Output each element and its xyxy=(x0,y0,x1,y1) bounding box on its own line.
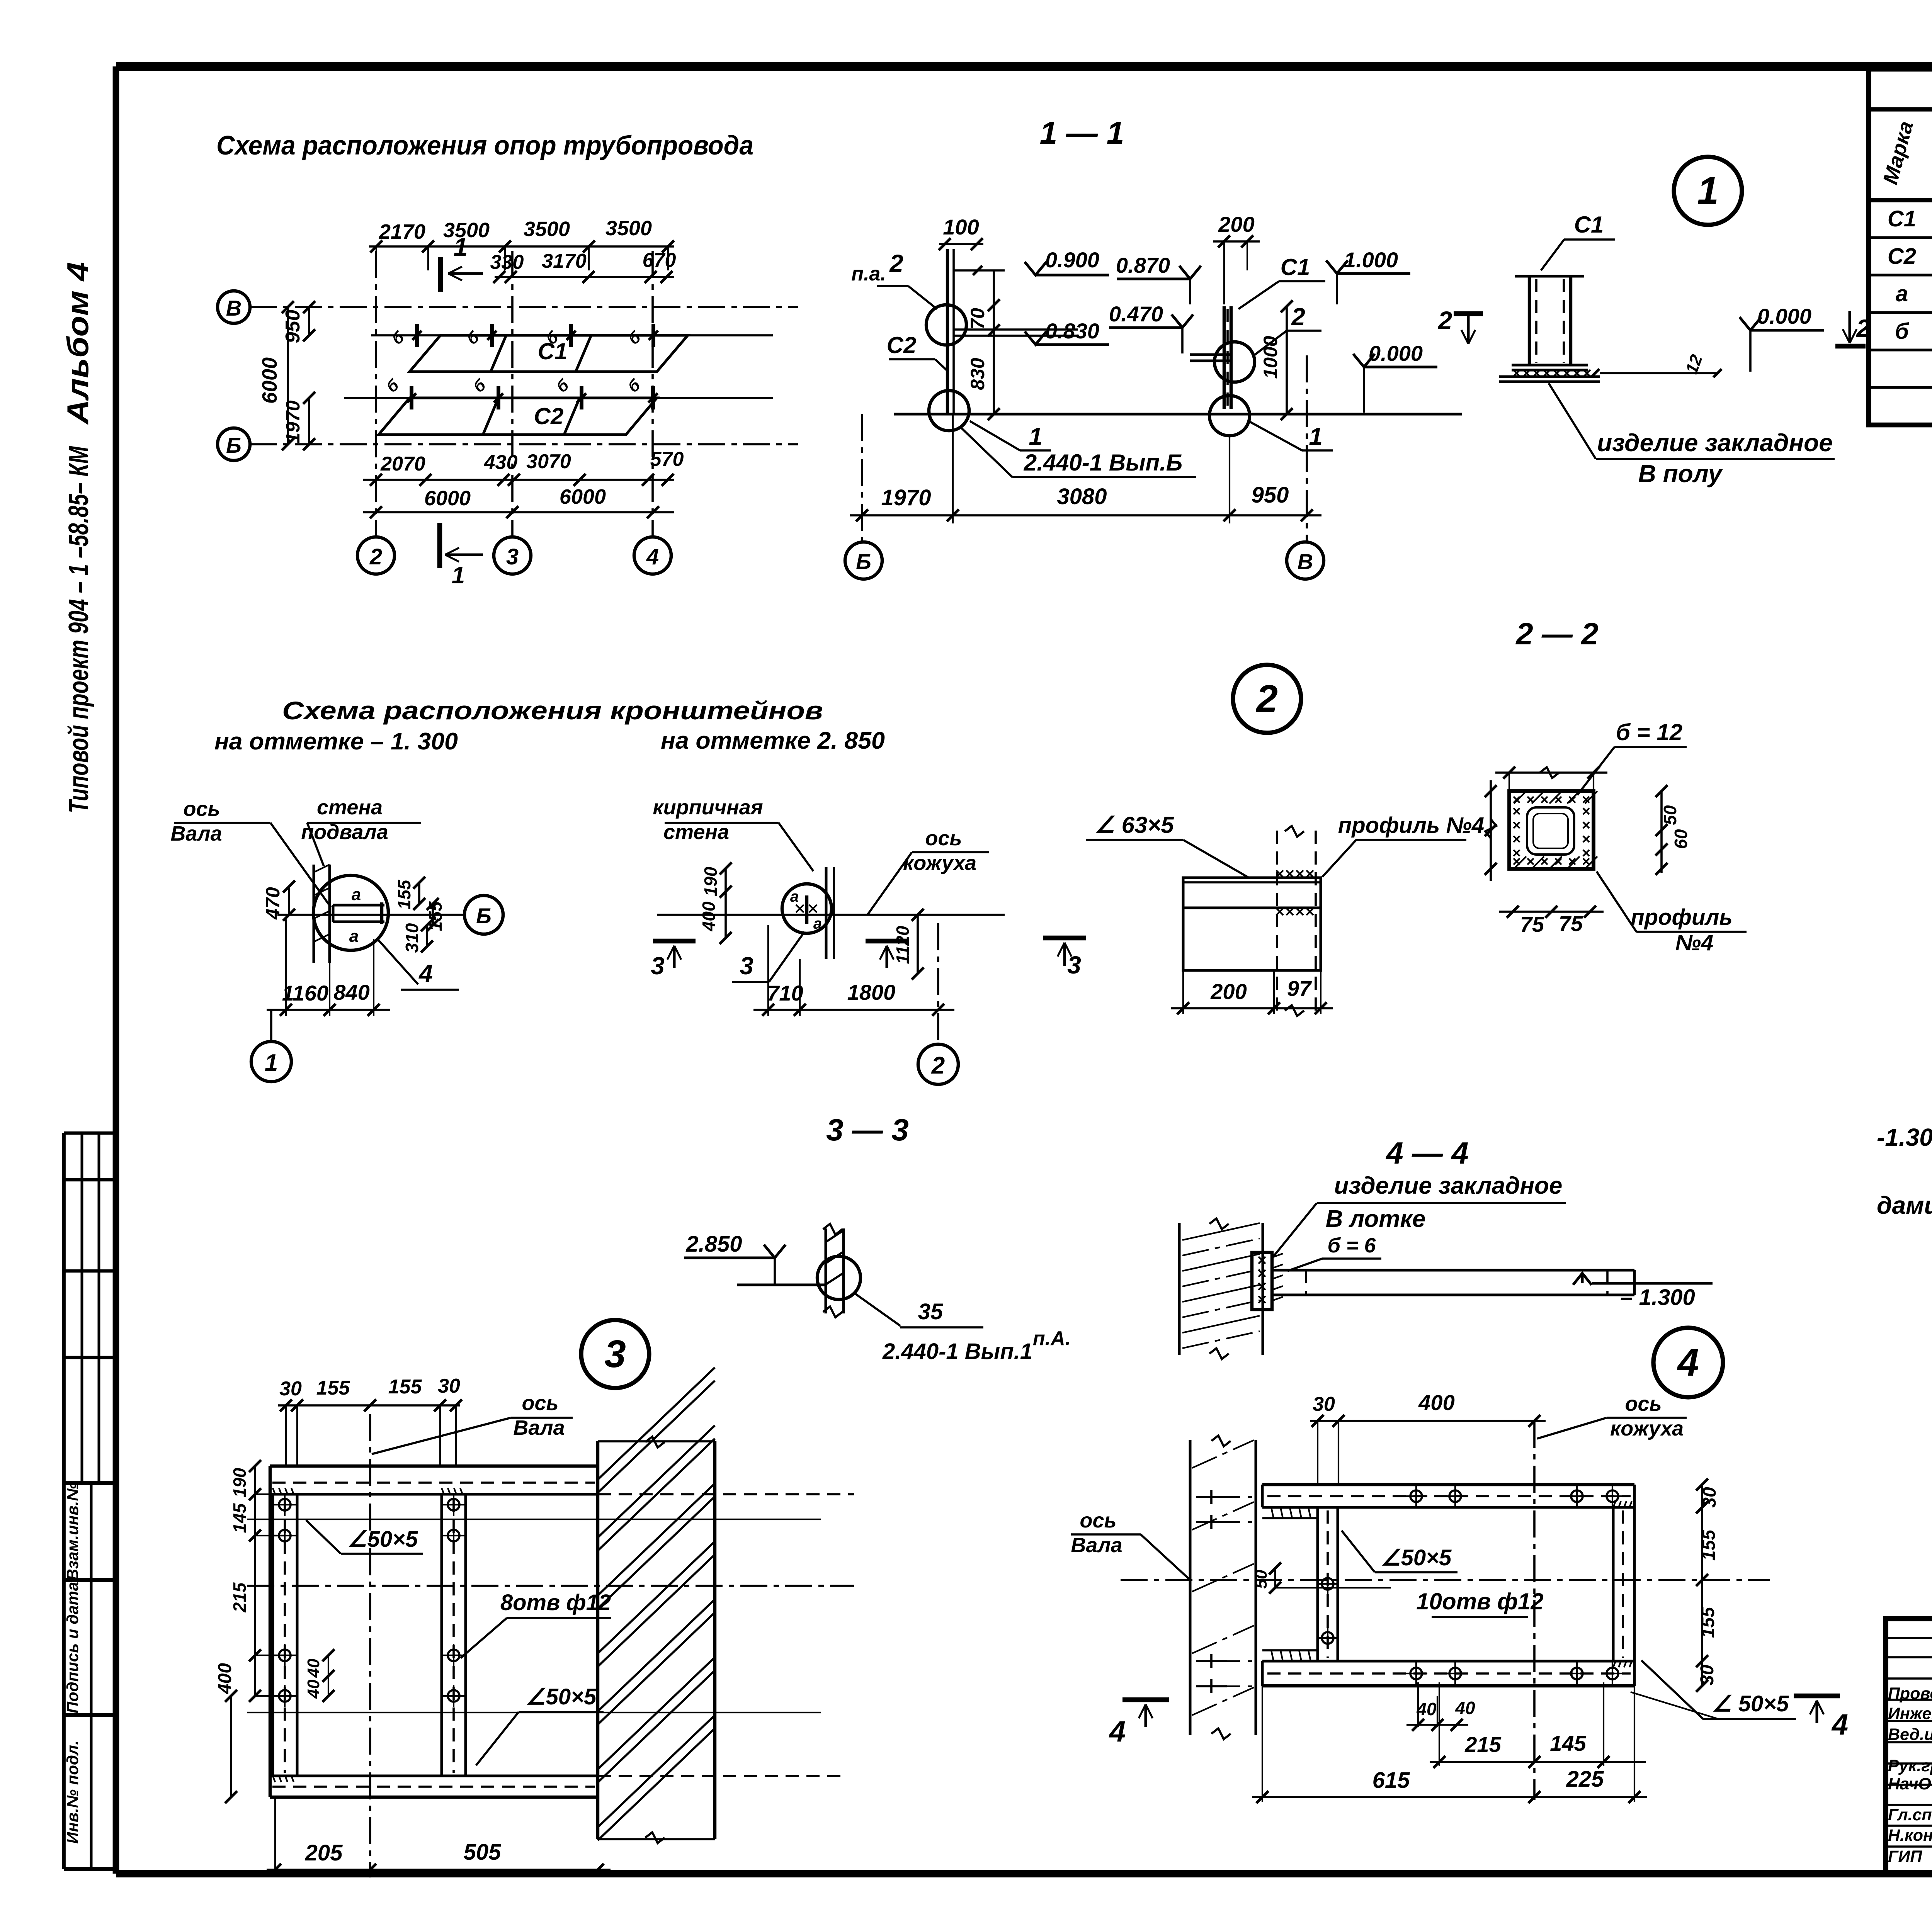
svg-text:1: 1 xyxy=(265,1050,278,1076)
svg-text:40: 40 xyxy=(304,1679,323,1699)
svg-text:30: 30 xyxy=(1697,1665,1718,1685)
svg-text:30: 30 xyxy=(279,1378,302,1400)
svg-text:35: 35 xyxy=(918,1299,943,1324)
svg-text:75: 75 xyxy=(1559,911,1583,936)
svg-text:Вала: Вала xyxy=(170,822,222,845)
svg-text:50: 50 xyxy=(1252,1570,1270,1589)
svg-text:40: 40 xyxy=(1455,1698,1475,1718)
svg-text:2 — 2: 2 — 2 xyxy=(1515,617,1598,651)
svg-text:8отв ф12: 8отв ф12 xyxy=(500,1590,611,1615)
svg-text:∠ 63×5: ∠ 63×5 xyxy=(1094,812,1174,838)
svg-text:75: 75 xyxy=(1520,912,1544,936)
svg-text:ГИП: ГИП xyxy=(1888,1847,1922,1866)
svg-text:470: 470 xyxy=(262,887,284,920)
svg-text:п.а.: п.а. xyxy=(851,263,886,285)
svg-text:1: 1 xyxy=(1309,423,1323,450)
svg-text:3: 3 xyxy=(740,952,753,980)
svg-text:3: 3 xyxy=(506,544,519,569)
svg-text:Гл.спец.т.о: Гл.спец.т.о xyxy=(1888,1806,1932,1824)
svg-text:1800: 1800 xyxy=(847,980,896,1004)
svg-text:0.900: 0.900 xyxy=(1045,248,1099,272)
svg-text:кожуха: кожуха xyxy=(1610,1417,1684,1440)
svg-text:200: 200 xyxy=(1218,212,1254,236)
svg-text:30: 30 xyxy=(438,1375,460,1397)
svg-text:0.000: 0.000 xyxy=(1757,304,1811,328)
svg-text:670: 670 xyxy=(643,249,676,272)
svg-text:В полу: В полу xyxy=(1638,460,1723,488)
svg-text:97: 97 xyxy=(1287,976,1312,1001)
svg-text:кирпичная: кирпичная xyxy=(653,796,763,819)
svg-text:950: 950 xyxy=(1252,482,1289,508)
svg-text:2: 2 xyxy=(369,544,382,569)
svg-text:б = 12: б = 12 xyxy=(1616,719,1682,745)
svg-text:В: В xyxy=(226,296,241,320)
svg-text:1: 1 xyxy=(1029,423,1043,450)
svg-text:2: 2 xyxy=(931,1052,945,1079)
svg-text:215: 215 xyxy=(230,1582,250,1612)
svg-text:30: 30 xyxy=(1313,1393,1335,1415)
svg-text:155: 155 xyxy=(388,1376,422,1398)
svg-text:Проверил: Проверил xyxy=(1888,1684,1932,1703)
svg-text:4: 4 xyxy=(1109,1715,1126,1748)
svg-text:190: 190 xyxy=(230,1468,250,1497)
svg-text:60: 60 xyxy=(1671,829,1691,849)
svg-text:стена: стена xyxy=(663,821,729,844)
svg-text:– 1.300: – 1.300 xyxy=(1620,1285,1695,1310)
svg-text:155: 155 xyxy=(394,879,414,909)
svg-text:ось: ось xyxy=(925,827,962,850)
svg-text:40: 40 xyxy=(304,1658,323,1678)
svg-text:215: 215 xyxy=(1464,1732,1501,1757)
svg-text:615: 615 xyxy=(1372,1768,1410,1793)
svg-text:3500: 3500 xyxy=(605,217,652,240)
svg-text:Вала: Вала xyxy=(1071,1534,1122,1557)
svg-text:а: а xyxy=(813,915,822,932)
svg-text:30: 30 xyxy=(1699,1487,1720,1508)
svg-text:505: 505 xyxy=(464,1840,502,1865)
svg-text:Б: Б xyxy=(226,433,241,457)
svg-text:б: б xyxy=(1895,319,1910,344)
svg-text:400: 400 xyxy=(699,901,719,931)
svg-text:190: 190 xyxy=(701,866,721,896)
svg-text:3: 3 xyxy=(651,952,665,980)
svg-text:4: 4 xyxy=(1831,1708,1848,1741)
svg-text:3070: 3070 xyxy=(526,450,571,473)
svg-text:профиль №4: профиль №4 xyxy=(1338,813,1484,838)
svg-text:6000: 6000 xyxy=(560,485,606,508)
svg-text:профиль: профиль xyxy=(1631,905,1733,930)
svg-text:Н.контр.: Н.контр. xyxy=(1888,1826,1932,1845)
svg-text:1970: 1970 xyxy=(282,400,304,443)
svg-text:С2: С2 xyxy=(887,332,917,358)
svg-text:Инв.№ подл.: Инв.№ подл. xyxy=(63,1740,82,1843)
svg-text:950: 950 xyxy=(282,310,304,343)
svg-text:1 — 1: 1 — 1 xyxy=(1040,116,1124,151)
svg-text:∠50×5: ∠50×5 xyxy=(1381,1545,1452,1570)
svg-text:на отметке – 1. 300: на отметке – 1. 300 xyxy=(214,728,458,755)
svg-text:С1: С1 xyxy=(1281,254,1310,280)
svg-text:№4: №4 xyxy=(1675,930,1714,955)
svg-text:0.830: 0.830 xyxy=(1045,319,1099,343)
svg-text:стена: стена xyxy=(317,796,383,819)
svg-text:710: 710 xyxy=(767,981,803,1005)
svg-text:0.000: 0.000 xyxy=(1369,341,1423,365)
svg-text:1160: 1160 xyxy=(282,981,328,1005)
svg-text:1: 1 xyxy=(452,562,465,589)
svg-text:кожуха: кожуха xyxy=(903,851,976,875)
svg-text:Альбом 4: Альбом 4 xyxy=(61,262,95,425)
svg-text:2.440-1 Вып.Б: 2.440-1 Вып.Б xyxy=(1024,450,1183,476)
svg-text:155: 155 xyxy=(1699,1529,1719,1561)
svg-text:155: 155 xyxy=(316,1377,350,1399)
svg-text:Рук.гр.: Рук.гр. xyxy=(1888,1757,1932,1775)
svg-text:200: 200 xyxy=(1210,979,1247,1004)
svg-text:С2: С2 xyxy=(1888,244,1916,269)
svg-text:В лотке: В лотке xyxy=(1326,1206,1426,1232)
svg-text:2070: 2070 xyxy=(380,453,425,475)
svg-text:ось: ось xyxy=(183,797,220,821)
svg-text:3 — 3: 3 — 3 xyxy=(826,1113,908,1147)
svg-text:2: 2 xyxy=(889,250,903,277)
svg-text:Типовой проект 904 – 1 –58.: Типовой проект 904 – 1 –58.85– КМ xyxy=(63,445,94,813)
svg-text:Инженер: Инженер xyxy=(1888,1704,1932,1723)
svg-text:400: 400 xyxy=(215,1663,235,1694)
svg-text:6000: 6000 xyxy=(424,487,471,510)
svg-text:145: 145 xyxy=(230,1503,250,1533)
svg-text:2.440-1 Вып.1: 2.440-1 Вып.1 xyxy=(882,1339,1032,1364)
svg-text:155: 155 xyxy=(425,901,446,931)
svg-text:310: 310 xyxy=(402,923,422,953)
svg-text:ось: ось xyxy=(522,1391,558,1415)
svg-text:2: 2 xyxy=(1255,677,1278,720)
svg-text:1.000: 1.000 xyxy=(1344,248,1398,272)
svg-text:4: 4 xyxy=(646,544,659,569)
svg-text:3: 3 xyxy=(604,1332,626,1376)
svg-text:155: 155 xyxy=(1698,1607,1718,1638)
svg-text:∠50×5: ∠50×5 xyxy=(526,1684,597,1709)
svg-text:100: 100 xyxy=(943,215,979,239)
svg-text:3: 3 xyxy=(1067,951,1081,979)
svg-text:4: 4 xyxy=(418,960,433,987)
svg-text:70: 70 xyxy=(967,308,988,330)
svg-text:2170: 2170 xyxy=(379,220,425,243)
svg-text:б = 6: б = 6 xyxy=(1327,1234,1376,1257)
svg-text:3170: 3170 xyxy=(542,250,587,272)
svg-text:1: 1 xyxy=(1697,169,1719,212)
svg-text:-1.300 и 2.850 Р: -1.300 и 2.850 Р xyxy=(1877,1123,1932,1151)
svg-text:840: 840 xyxy=(333,980,369,1004)
svg-text:дами Э42 по ГОСТ 9467-75: дами Э42 по ГОСТ 9467-75 xyxy=(1877,1191,1932,1219)
svg-text:Вед.инж: Вед.инж xyxy=(1888,1725,1932,1744)
svg-text:Б: Б xyxy=(476,904,492,928)
svg-text:1970: 1970 xyxy=(881,485,931,510)
svg-text:4: 4 xyxy=(1677,1341,1699,1384)
svg-text:С1: С1 xyxy=(538,338,568,364)
svg-text:∠50×5: ∠50×5 xyxy=(347,1527,418,1552)
svg-text:ось: ось xyxy=(1625,1392,1662,1415)
svg-text:Подпись и дата: Подпись и дата xyxy=(63,1582,82,1713)
svg-text:НачОСП-1: НачОСП-1 xyxy=(1888,1775,1932,1793)
svg-text:изделие закладное: изделие закладное xyxy=(1597,429,1833,457)
svg-text:Вала: Вала xyxy=(513,1416,565,1439)
svg-text:2.850: 2.850 xyxy=(685,1232,742,1257)
svg-text:570: 570 xyxy=(650,448,684,471)
svg-text:а: а xyxy=(349,927,359,946)
svg-text:Б: Б xyxy=(856,549,871,574)
svg-text:830: 830 xyxy=(967,358,988,390)
svg-text:330: 330 xyxy=(490,251,524,274)
svg-text:С2: С2 xyxy=(534,403,564,429)
svg-text:С1: С1 xyxy=(1888,206,1916,231)
svg-text:ось: ось xyxy=(1080,1509,1116,1532)
svg-text:п.А.: п.А. xyxy=(1033,1327,1071,1350)
svg-text:Взам.инв.№: Взам.инв.№ xyxy=(63,1482,82,1580)
svg-text:Схема расположения опор т: Схема расположения опор трубопровода xyxy=(216,130,753,160)
svg-text:С1: С1 xyxy=(1574,212,1604,238)
svg-text:2: 2 xyxy=(1291,303,1305,331)
svg-text:6000: 6000 xyxy=(258,357,281,404)
svg-text:3500: 3500 xyxy=(524,217,570,241)
svg-text:1: 1 xyxy=(454,233,468,261)
svg-text:0.470: 0.470 xyxy=(1109,302,1163,326)
svg-text:2: 2 xyxy=(1437,306,1452,335)
svg-text:50: 50 xyxy=(1660,805,1680,825)
svg-text:∠ 50×5: ∠ 50×5 xyxy=(1712,1691,1789,1716)
svg-text:на отметке 2. 850: на отметке 2. 850 xyxy=(661,727,885,754)
svg-text:205: 205 xyxy=(305,1840,343,1865)
svg-text:а: а xyxy=(790,888,799,905)
svg-text:3080: 3080 xyxy=(1057,484,1107,509)
svg-text:10отв ф12: 10отв ф12 xyxy=(1416,1589,1543,1614)
svg-text:40: 40 xyxy=(1416,1699,1437,1719)
svg-text:1120: 1120 xyxy=(893,926,913,964)
svg-text:4 — 4: 4 — 4 xyxy=(1385,1136,1468,1170)
svg-text:а: а xyxy=(352,885,361,904)
svg-text:430: 430 xyxy=(484,451,518,474)
svg-text:а: а xyxy=(1896,281,1908,306)
svg-text:изделие закладное: изделие закладное xyxy=(1334,1172,1563,1199)
svg-text:В: В xyxy=(1298,549,1313,574)
svg-text:0.870: 0.870 xyxy=(1116,253,1170,277)
svg-text:225: 225 xyxy=(1566,1767,1604,1792)
svg-text:145: 145 xyxy=(1550,1731,1586,1755)
svg-text:Схема расположения крон: Схема расположения кронштейнов xyxy=(282,696,823,725)
svg-text:400: 400 xyxy=(1418,1390,1454,1415)
